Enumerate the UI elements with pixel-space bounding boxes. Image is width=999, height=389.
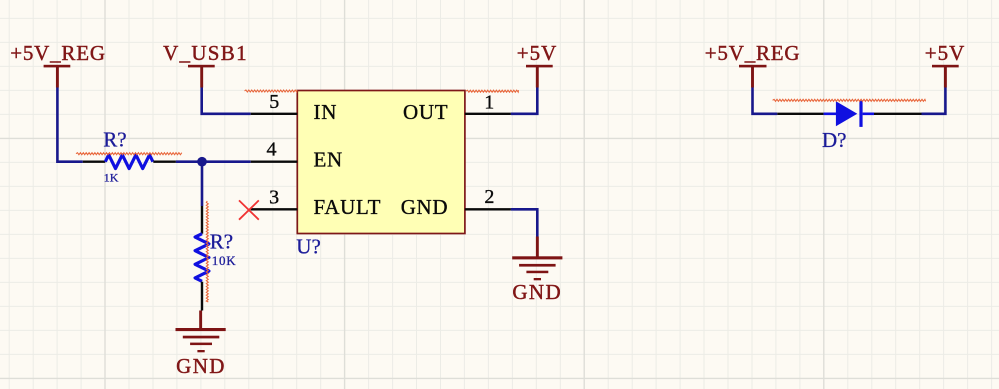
pin 2 of R2 — [201, 282, 203, 311]
svg-text:GND: GND — [401, 195, 449, 219]
resistor R1 horizontal — [83, 128, 176, 185]
diode triangle — [836, 101, 857, 126]
compile mask squiggle at pin 5 — [245, 90, 298, 92]
svg-text:+5V: +5V — [925, 41, 966, 65]
power port V_USB1 — [163, 41, 248, 87]
pin 2 of R1 — [153, 160, 176, 162]
power port +5V_REG (left) — [10, 41, 106, 87]
cathode pin — [863, 113, 874, 116]
svg-text:+5V_REG: +5V_REG — [10, 41, 106, 65]
pin 2 — [401, 186, 511, 219]
svg-text:+5V: +5V — [517, 41, 558, 65]
wire diode to +5V — [922, 88, 946, 114]
diode D1 — [777, 101, 921, 152]
svg-text:IN: IN — [314, 100, 338, 124]
svg-text:2: 2 — [484, 186, 494, 208]
no-ERC marker pin 3 — [239, 200, 259, 219]
wire junction to pin 4 — [202, 160, 251, 163]
svg-text:V_USB1: V_USB1 — [163, 41, 248, 65]
compile mask squiggle over R1 — [76, 153, 182, 155]
pin 1 of R1 — [83, 160, 106, 162]
wire R1 to junction — [176, 160, 202, 163]
svg-text:OUT: OUT — [403, 100, 448, 124]
compile mask squiggle over diode — [773, 99, 926, 101]
svg-text:R?: R? — [103, 128, 126, 152]
ground (right) — [512, 237, 562, 305]
svg-text:5: 5 — [269, 91, 279, 113]
svg-text:R?: R? — [210, 230, 233, 254]
svg-text:EN: EN — [314, 148, 343, 172]
pin 1 — [403, 92, 511, 124]
compile mask squiggle along R2 — [206, 201, 208, 302]
anode pin — [777, 113, 823, 115]
svg-text:D?: D? — [822, 128, 847, 152]
svg-text:4: 4 — [267, 139, 277, 161]
svg-text:GND: GND — [512, 280, 562, 304]
resistor body zigzag — [195, 234, 209, 282]
cathode bar — [859, 101, 862, 127]
svg-text:FAULT: FAULT — [314, 195, 382, 219]
pin 1 of R2 — [201, 206, 203, 234]
svg-text:U?: U? — [296, 235, 321, 259]
svg-text:1: 1 — [484, 92, 494, 114]
pin 4 — [251, 139, 343, 172]
wire +5V_REG to diode — [753, 88, 778, 114]
svg-text:10K: 10K — [212, 253, 237, 268]
wire junction down to R2 — [201, 162, 204, 206]
wire V_USB1 to pin 5 — [202, 88, 251, 114]
wire pin 1 to +5V — [511, 88, 537, 114]
power port +5V (middle) — [517, 41, 558, 87]
svg-text:GND: GND — [176, 354, 226, 378]
wire pin 2 to ground — [511, 209, 537, 236]
svg-text:+5V_REG: +5V_REG — [705, 41, 801, 65]
svg-text:1K: 1K — [104, 171, 119, 185]
resistor R2 vertical — [195, 206, 236, 311]
pin 5 — [251, 91, 337, 124]
pin 3 — [251, 186, 381, 219]
svg-text:3: 3 — [269, 186, 279, 208]
op-amp U1 body — [296, 91, 465, 259]
junction node — [197, 157, 207, 167]
power port +5V (right) — [925, 41, 966, 87]
ground (left) — [176, 311, 226, 378]
wire +5V_REG to R1 — [57, 88, 82, 162]
resistor body zigzag — [105, 155, 153, 169]
power port +5V_REG (right) — [705, 41, 801, 87]
compile mask squiggle at pin 1 — [466, 90, 519, 92]
